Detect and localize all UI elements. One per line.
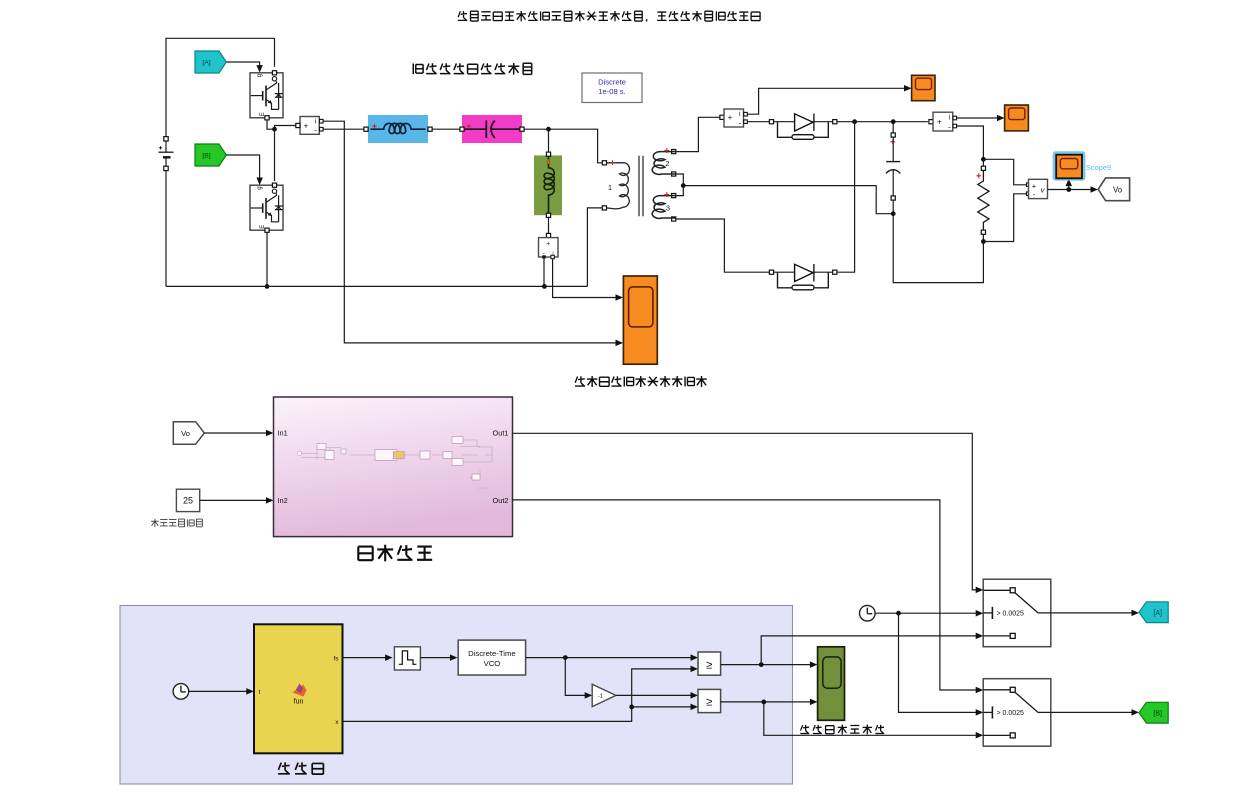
node rectifier output top (852, 119, 857, 124)
current sensor i1 (resonant current) (296, 117, 323, 135)
svg-text:g: g (257, 74, 263, 77)
wire switch1 to Goto [A] (1051, 610, 1139, 617)
svg-text:≥: ≥ (706, 697, 712, 709)
svg-text:+: + (728, 113, 733, 122)
wire D1 to node (837, 121, 928, 123)
wire VCO out to relational1 (526, 654, 698, 661)
wire i3 signal to scope D1 (747, 85, 911, 114)
Goto tag Vo (1098, 178, 1129, 201)
wire i1 minus to Lr (323, 128, 365, 130)
node clock2 branch (896, 611, 901, 616)
wire fun x to relational1 in2 (343, 666, 699, 722)
label 原边谐振电流和励磁电流 (575, 376, 707, 387)
svg-text:> 0.0025: > 0.0025 (997, 710, 1025, 717)
wire From[A] to IGBT1 gate (226, 62, 263, 73)
Goto tag [B] (1139, 702, 1168, 723)
wire i2 minus to bottom rail (543, 259, 545, 287)
node load bottom (981, 239, 986, 244)
switch block 2 (983, 679, 1051, 747)
series resonant capacitor Cr (460, 115, 524, 143)
diode D1 with snubber (769, 114, 837, 140)
svg-text:fun: fun (294, 699, 304, 706)
wire center tap to output cap bottom (683, 186, 893, 214)
svg-text:≥: ≥ (706, 659, 712, 671)
node scope9 branch (1066, 187, 1071, 192)
load resistor R (976, 159, 989, 241)
svg-text:> 0.0025: > 0.0025 (997, 611, 1025, 618)
wire node down to Lm (548, 129, 550, 152)
svg-text:+: + (546, 241, 550, 248)
gain block -1 (592, 684, 616, 706)
wire i2 signal to big scope input1 (553, 259, 623, 301)
svg-text:In2: In2 (278, 496, 288, 505)
wire clock2 branch to switch2 in2 (899, 613, 984, 715)
wire i4 signal to scope D2 (957, 115, 1005, 121)
clock block 2 (860, 605, 876, 621)
diode D2 with snubber (769, 264, 837, 290)
svg-text:-1: -1 (598, 694, 603, 700)
Scope9 selection halo (1053, 151, 1086, 180)
IGBT2 half-bridge lower switch (250, 183, 283, 232)
node rel1 branch (759, 662, 764, 667)
label 软启动 (278, 762, 323, 774)
wire rel2 out to scope input2 (721, 699, 818, 706)
label 给定参考电压 (151, 519, 202, 527)
wire winding3 start to center tap (676, 186, 684, 196)
wire switch2 to Goto [B] (1051, 709, 1139, 716)
svg-text:[A]: [A] (202, 60, 210, 67)
node midpoint A (272, 127, 277, 132)
transformer core (639, 156, 643, 216)
wire fun fs to stair block (343, 654, 393, 661)
wire 25 to In2 (200, 497, 274, 504)
wire rel1 branch to switch1 in3 (761, 633, 983, 665)
wire D2 to rectifier node (837, 122, 855, 273)
node center tap (681, 183, 686, 188)
node rel2 branch (761, 700, 766, 705)
subsystem 变频控制 (frequency control) (274, 397, 513, 537)
stair generator block (394, 647, 420, 670)
soft-start area background (120, 606, 793, 785)
wire rel1 out to scope input1 (721, 661, 818, 668)
switch block 1 (983, 579, 1051, 647)
svg-text:25: 25 (183, 496, 193, 506)
svg-text:Vo: Vo (1113, 185, 1123, 194)
wire clock2 to switch1 in2 (875, 610, 983, 617)
Scope9 (1056, 155, 1111, 179)
current sensor i4 (output current) (929, 112, 957, 131)
current sensor i3 (rectifier top) (720, 109, 747, 127)
svg-text:1e-08 s.: 1e-08 s. (598, 87, 625, 96)
node load top (981, 157, 986, 162)
svg-text:-: - (948, 123, 951, 132)
node x branch (629, 705, 634, 710)
svg-text:-: - (738, 118, 741, 127)
constant block 25 (176, 489, 199, 511)
wire Out2 to switch2 input1 (513, 500, 984, 693)
svg-text:Vo: Vo (181, 429, 190, 438)
wire winding3 to diode D2 (676, 219, 770, 272)
wire i4 minus to load top (957, 126, 984, 157)
voltage sensor V (output voltage) (1027, 179, 1048, 199)
DC voltage source E (159, 137, 174, 171)
From tag [A] (195, 51, 226, 73)
From tag Vo (173, 422, 204, 445)
transformer T1 primary winding (602, 160, 629, 210)
wire voltmeter to Goto Vo (1048, 186, 1099, 193)
wire i3 minus to diode D1 (747, 121, 769, 123)
MATLAB Function block fun (soft start) (254, 624, 343, 753)
wire bottom rail up to primary (587, 208, 602, 287)
svg-text:In1: In1 (278, 429, 288, 438)
node bottom rail junction E2 (265, 284, 270, 289)
wire top rail battery to IGBT1 collector (166, 38, 275, 141)
scope D1 (diode current) (912, 75, 935, 100)
output capacitor Co (886, 124, 900, 214)
svg-text:t: t (259, 689, 261, 696)
relational operator 1 (>=) (698, 652, 721, 675)
From tag [B] (195, 144, 226, 166)
svg-text:+: + (937, 118, 942, 127)
wire Out1 to switch1 input1 (513, 433, 984, 593)
svg-text:Scope9: Scope9 (1086, 163, 1111, 172)
svg-text:-: - (314, 126, 317, 135)
wire midpoint down to IGBT2 collector (274, 129, 276, 181)
wire rel2 branch to switch2 in3 (764, 702, 983, 739)
svg-text:Discrete-Time: Discrete-Time (468, 649, 516, 658)
wire cap bottom to load bottom (893, 214, 983, 283)
node cap bottom (891, 211, 896, 216)
svg-text:[B]: [B] (202, 153, 210, 160)
transformer secondary winding 2 (652, 148, 676, 176)
svg-text:[A]: [A] (1153, 610, 1162, 617)
current sensor i2 (magnetizing current) (539, 233, 559, 258)
svg-text:+: + (304, 121, 309, 130)
IGBT1 half-bridge upper switch (250, 71, 283, 120)
wire battery negative to bottom rail (165, 171, 167, 287)
subtitle 闭环软启动仿真模型 (413, 63, 531, 75)
svg-text:Out2: Out2 (492, 496, 508, 505)
wire branch up to Scope9 (1066, 179, 1073, 190)
wire stair to VCO (420, 654, 457, 661)
wire clock1 to fun (189, 688, 254, 695)
wire IGBT2 emitter to bottom rail (266, 232, 268, 286)
wire Cr to node Lm (524, 129, 602, 163)
relational operator 2 (>=) (698, 689, 721, 712)
svg-text:+: + (1032, 181, 1037, 190)
wire midpoint to current sensor (275, 126, 296, 130)
svg-text:Discrete: Discrete (598, 78, 626, 87)
svg-text:Out1: Out1 (492, 429, 508, 438)
svg-text:3: 3 (666, 204, 670, 213)
series resonant inductor Lr (364, 115, 432, 143)
node VCO branch (563, 655, 568, 660)
wire load top to voltmeter plus (983, 159, 1026, 185)
label 软启动脉冲信号 (800, 725, 884, 735)
clock block 1 (173, 684, 189, 700)
wire bottom rail (166, 285, 587, 287)
wire VCO branch to gain (565, 658, 592, 699)
magnetizing inductor Lm (534, 152, 562, 217)
wire x branch to relational2 in2 (632, 704, 698, 711)
scope soft-start pulses (818, 647, 845, 721)
wire Lr to Cr (432, 128, 460, 130)
subsystem mini diagram (297, 437, 492, 489)
wire load bottom to voltmeter minus (983, 194, 1026, 242)
wire Lm to current sensor i2 (548, 217, 550, 235)
svg-text:1: 1 (608, 183, 612, 192)
wire gain to relational2 (616, 692, 698, 699)
wire From[B] to IGBT2 gate (226, 155, 263, 185)
label 变频控制 (358, 545, 432, 562)
model annotation title (458, 11, 760, 21)
svg-text:[B]: [B] (1153, 711, 1162, 718)
node cap branch top (891, 119, 896, 124)
scope D2 (output current) (1005, 105, 1029, 131)
node resonant tank junction (546, 127, 551, 132)
svg-text:g: g (257, 186, 263, 189)
wire winding2 end to center tap (676, 174, 684, 186)
big scope (primary currents) (623, 276, 657, 364)
transformer secondary winding 3 (652, 192, 676, 221)
wire i1 signal to big scope input2 (323, 121, 623, 346)
svg-text:2: 2 (665, 159, 669, 168)
Discrete-Time VCO block (458, 640, 525, 675)
wire Vo to In1 (204, 430, 273, 436)
wire IGBT1 emitter to midpoint node (267, 120, 275, 129)
svg-text:VCO: VCO (484, 659, 501, 668)
wire winding2 to current sensor i3 (676, 117, 720, 151)
Discrete powergui block (582, 73, 642, 103)
node bottom rail junction i2 (542, 284, 547, 289)
svg-text:fs: fs (334, 655, 339, 662)
Goto tag [A] (1139, 602, 1168, 623)
